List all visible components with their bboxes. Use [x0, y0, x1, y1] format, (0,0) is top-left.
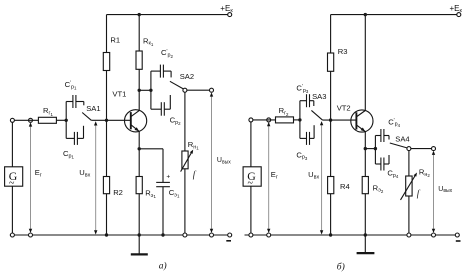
svg-text:R2: R2: [113, 188, 123, 197]
wire: input wire left: [14, 119, 38, 121]
transistor VT2: [351, 110, 373, 132]
node: Uvyx terminal on rail (a): [210, 233, 214, 237]
wire: Cp4' top branch right: [384, 135, 389, 137]
measure line Uvyx (a): [211, 94, 213, 233]
resistor Re1: [136, 177, 142, 194]
wire: SA4 lower contact stub: [388, 155, 390, 164]
node: negative terminal (b): [455, 233, 459, 237]
ground (a): [138, 235, 140, 254]
node: emitter branch on rail: [138, 233, 141, 236]
label +Ek (b): [450, 4, 463, 14]
wire: Rg2 to Cp3 loop: [294, 119, 300, 121]
svg-text:R3: R3: [338, 47, 348, 56]
node: Cp3 loop input junction: [298, 118, 301, 121]
wire: emitter to Re1: [138, 131, 140, 176]
wire: Rn1 to bottom rail: [184, 169, 186, 233]
svg-text:+: +: [166, 174, 170, 181]
svg-text:SA2: SA2: [180, 72, 194, 81]
wire: R3 to base node (b): [330, 71, 332, 120]
transistor VT1: [125, 110, 147, 132]
node: Cp2 loop junction: [149, 89, 152, 92]
node: Eg terminal top (b): [267, 118, 271, 122]
resistor Re2: [362, 177, 368, 194]
wire: Rg1 to Cp1 loop: [56, 119, 66, 121]
wire: SA4 upper contact stub: [388, 136, 390, 140]
resistor R1: [103, 53, 109, 71]
wire: SA1 upper contact stub: [83, 102, 85, 106]
node: base divider junction: [105, 119, 108, 122]
resistor Rg1: [38, 117, 56, 123]
svg-text:SA4: SA4: [395, 134, 409, 143]
svg-text:б): б): [337, 262, 345, 273]
node: emitter branch on rail (b): [364, 233, 367, 236]
wire: emitter tap to Ce1: [139, 148, 163, 150]
label +Ek (a): [220, 4, 233, 14]
wire: R4 to bottom rail: [330, 194, 332, 235]
capacitor Ce1: [156, 181, 170, 183]
wire: Rn2 to bottom rail: [408, 196, 410, 233]
wire: collector to Cp2 loop: [139, 89, 151, 91]
label minus (b): [456, 240, 461, 242]
wire: bottom rail (a): [10, 234, 230, 236]
node: Eg terminal bottom (b): [267, 233, 271, 237]
capacitor Cp2: [160, 102, 162, 116]
svg-text:VT1: VT1: [112, 90, 126, 99]
wire: Cp4 bottom branch left: [375, 163, 381, 165]
rheostat Rn2: [406, 176, 412, 196]
wire: Cp2' top branch right: [163, 70, 171, 72]
switch SA4 arm: [390, 143, 407, 148]
wire: Cp4 bottom branch right: [384, 163, 389, 165]
wire: SA3 common to VT2 base: [323, 119, 357, 121]
node: Rk1 on rail: [138, 13, 141, 16]
wire: Cp2 bottom branch right: [164, 108, 170, 110]
wire: SA2 common to output terminal: [187, 89, 212, 91]
capacitor Cp1': [72, 95, 74, 108]
node: SA2 common terminal: [183, 88, 187, 92]
wire: input wire left (b): [253, 119, 276, 121]
rheostat Rn1: [182, 151, 188, 169]
wire: Ce1 bottom lead: [162, 187, 164, 235]
resistor Rg2: [276, 117, 294, 123]
capacitor Cp1: [73, 132, 75, 145]
node: Cp4 loop junction: [374, 147, 377, 150]
wire: Cp3 loop left vertical: [299, 101, 301, 139]
node: R2 on bottom rail: [105, 233, 108, 236]
measure line Uvx (b): [321, 123, 323, 233]
wire: SA2 upper contact stub: [170, 71, 172, 77]
wire: Rk1 to rail: [138, 15, 140, 51]
wire: collector to Rk1: [138, 69, 140, 110]
svg-text:R1: R1: [110, 36, 120, 45]
node: Ce1 on rail: [161, 233, 164, 236]
wire: SA1 lower contact stub: [83, 126, 85, 139]
node: collector on rail: [364, 13, 367, 16]
wire: Re2 to bottom rail: [364, 194, 366, 235]
label b): [337, 262, 345, 273]
capacitor Cp3': [306, 94, 308, 107]
node: Eg terminal top: [29, 118, 33, 122]
measure line Uvyx (b): [433, 152, 435, 232]
switch SA1 arm: [82, 113, 91, 121]
wire: emitter down (b): [364, 132, 366, 177]
measure line Uvx (a): [95, 124, 97, 234]
svg-text:R4: R4: [340, 182, 350, 191]
wire: SA1 common to VT1 base: [91, 119, 131, 121]
svg-text:SA1: SA1: [86, 104, 100, 113]
wire: Cp1' top branch left: [66, 101, 73, 103]
svg-text:а): а): [159, 260, 167, 271]
node: input terminal top (b): [249, 118, 253, 122]
wire: generator G bottom lead: [11, 186, 13, 233]
wire: generator G top lead: [11, 122, 13, 167]
resistor R3: [328, 53, 334, 71]
node: base divider junction (b): [329, 118, 332, 121]
wire: Cp2 bottom branch left: [151, 108, 161, 110]
generator G2 box: [243, 167, 261, 186]
wire: +Ek top rail (b): [331, 14, 459, 16]
node: emitter tap to Ce1: [138, 147, 141, 150]
wire: SA2 lower contact stub: [169, 95, 171, 109]
node: generator bottom terminal: [10, 233, 14, 237]
wire: generator G top lead (b): [250, 122, 252, 167]
measure line Eg (b): [268, 123, 270, 232]
switch SA3 arm: [311, 110, 322, 120]
wire: Cp3 bottom branch right: [310, 137, 315, 139]
wire: R1 to base node: [106, 71, 108, 121]
resistor R2: [103, 177, 109, 194]
wire: SA2 common down to Rn1: [184, 92, 186, 151]
node: collector tap: [138, 89, 141, 92]
wire: Cp1 loop left vertical: [65, 102, 67, 139]
wire: emitter tap to Cp4 loop: [365, 148, 375, 150]
node: generator bottom terminal (b): [249, 233, 253, 237]
wire: SA3 lower contact stub: [313, 125, 315, 138]
svg-text:SA3: SA3: [312, 92, 326, 101]
node: R4 on bottom rail: [329, 233, 332, 236]
wire: generator G bottom lead (b): [250, 186, 252, 233]
node: output terminal (b): [432, 147, 436, 151]
wire: bottom rail (b): [245, 234, 458, 236]
wire: base node to R4: [330, 120, 332, 176]
resistor Rk1: [136, 51, 142, 69]
node: emitter tap to Cp4: [364, 147, 367, 150]
node: Rn2 terminal on rail: [407, 233, 411, 237]
wire: Cp1 bottom branch left: [66, 137, 74, 139]
capacitor Cp4': [380, 129, 382, 142]
switch SA2 arm: [170, 81, 183, 89]
wire: R2 to bottom rail: [106, 194, 108, 235]
wire: Cp4' top branch left: [375, 135, 381, 137]
wire: Cp2 loop left vertical: [150, 71, 152, 109]
node: input terminal top: [10, 118, 14, 122]
generator G1 box: [5, 167, 23, 186]
resistor R4: [328, 177, 334, 194]
node: negative terminal (a): [228, 233, 232, 237]
wire: collector to rail (b): [364, 15, 366, 111]
node: Uvyx terminal on rail (b): [432, 233, 436, 237]
svg-text:VT2: VT2: [337, 103, 351, 112]
measure line Eg: [30, 124, 32, 233]
node: SA4 common terminal: [407, 147, 411, 151]
node: Eg terminal bottom: [29, 233, 33, 237]
wire: +Ek top rail (a): [107, 14, 230, 16]
wire: Cp2' top branch left: [151, 70, 161, 72]
wire: Cp1' top branch right: [76, 101, 84, 103]
capacitor Cp4: [380, 158, 382, 171]
wire: Ce1 top lead: [162, 149, 164, 183]
node: +Ek terminal (b): [457, 13, 461, 17]
wire: SA4 common down to Rn2: [408, 151, 410, 176]
ground (b): [364, 235, 366, 253]
capacitor Cp3: [306, 132, 308, 145]
wire: Cp4 loop left vertical: [374, 136, 376, 165]
wire: Cp1 bottom branch right: [77, 137, 83, 139]
capacitor Cp2': [159, 65, 161, 78]
wire: Cp3 bottom branch left: [300, 137, 307, 139]
wire: rail to R1: [106, 15, 108, 53]
node: Cp1 loop input junction: [65, 119, 68, 122]
wire: SA3 upper contact stub: [313, 101, 315, 106]
label a): [159, 260, 167, 271]
label minus (a): [226, 240, 231, 242]
wire: rail to R3: [330, 15, 332, 53]
node: Rn1 terminal on rail: [183, 233, 187, 237]
wire: base node to R2: [106, 120, 108, 176]
wire: Re1 to bottom rail: [138, 194, 140, 235]
wire: Cp3' top branch right: [310, 100, 314, 102]
node: +Ek terminal (a): [228, 13, 232, 17]
node: output terminal (a): [210, 88, 214, 92]
wire: Cp3' top branch left: [300, 100, 307, 102]
wire: SA4 common to output terminal: [411, 148, 434, 150]
